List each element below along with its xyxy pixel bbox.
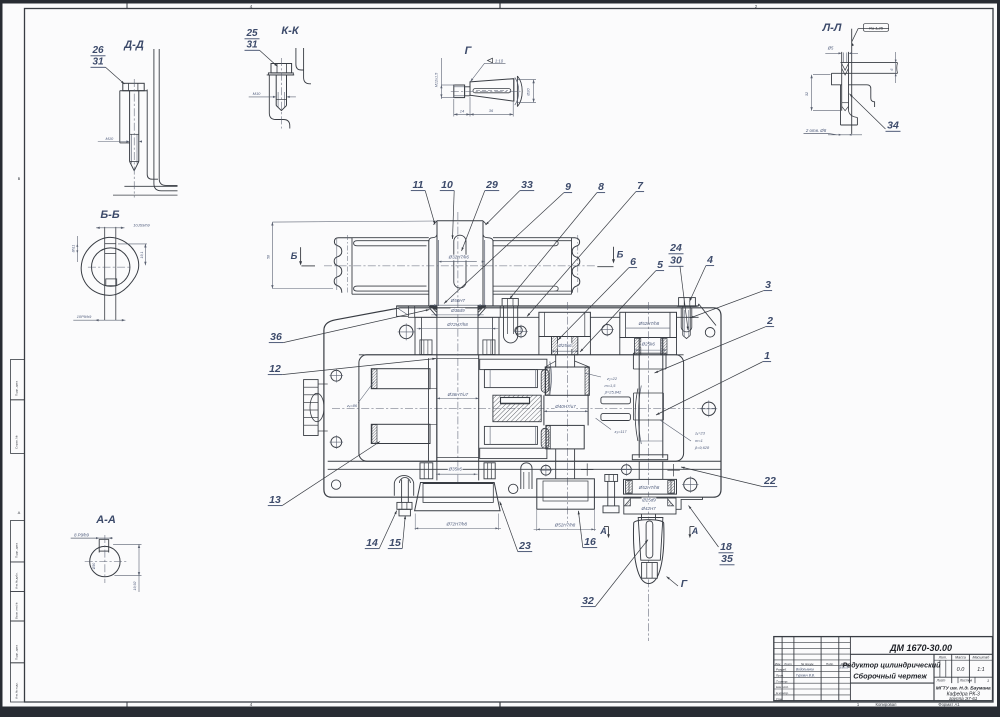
svg-text:А-А: А-А: [95, 514, 116, 526]
output shaft cross lines: [634, 392, 664, 394]
M10 thread dimension D-D: [98, 141, 127, 143]
big wheel z86 bottom arm: [371, 424, 430, 443]
svg-text:Ø36Н7/u7: Ø36Н7/u7: [447, 392, 469, 397]
seal wedges output bottom: [625, 499, 631, 506]
left margin graph box - podp i data lower: [11, 621, 25, 663]
deck top plate line: [397, 305, 438, 307]
output shaft column: [638, 338, 640, 458]
oil level indicator boss: [304, 380, 319, 436]
dim O32H7/k6 in hub: [448, 255, 470, 261]
svg-text:Листов: Листов: [959, 679, 973, 683]
big wheel hub lines: [428, 358, 430, 461]
dim O72H7/h8 bottom: [446, 522, 468, 528]
svg-text:Ø20: Ø20: [527, 88, 531, 97]
pin 34 body: [841, 52, 843, 111]
svg-text:34: 34: [887, 120, 899, 132]
shaft neck: [465, 87, 470, 96]
big wheel z86 top arm: [371, 369, 430, 389]
svg-text:Ø52Н7/h8: Ø52Н7/h8: [638, 485, 660, 490]
output shaft bottom flare: [632, 455, 667, 460]
B-B keyway horizontals: [105, 243, 116, 245]
output shaft lower extension: [641, 514, 643, 520]
svg-text:Масштаб: Масштаб: [973, 655, 991, 659]
svg-text:Нач.отд.: Нач.отд.: [776, 685, 789, 689]
bolt 26 shank: [129, 91, 131, 162]
svg-text:Ra 1,25: Ra 1,25: [869, 26, 884, 31]
svg-text:Водопьянов: Водопьянов: [796, 668, 814, 672]
input shaft centerline: [457, 212, 459, 482]
coupling lower chain plate left: [354, 286, 429, 291]
deck bolt hole symbol left: [399, 325, 413, 339]
input bottom bearing cover plate: [415, 483, 501, 511]
upper plate L-L: [841, 62, 898, 64]
bottom deck center marks: [581, 469, 593, 471]
shaft collar: [513, 79, 515, 102]
svg-text:1:10: 1:10: [495, 58, 504, 63]
svg-text:Разраб.: Разраб.: [776, 668, 787, 672]
washer line under bolt 26: [120, 90, 147, 92]
dim 35Ok6 under input shaft: [448, 467, 463, 473]
big wheel z86 bottom tooth hatch: [372, 425, 377, 444]
title block lit-massa-masshtab cells: [934, 659, 993, 661]
bolt 25 shank: [275, 75, 277, 106]
svg-text:35: 35: [721, 553, 733, 565]
A-A right dim 19.92: [113, 543, 141, 545]
svg-text:Изм.: Изм.: [775, 662, 782, 666]
bolt 25 head: [271, 64, 292, 73]
bolt 26 tip: [130, 162, 139, 171]
extension line M12: [440, 58, 442, 99]
svg-text:19,1: 19,1: [140, 252, 144, 259]
input bearing lower bolt left: [420, 340, 432, 355]
B-B cam blob outline: [81, 237, 139, 295]
gear z117 upper arm: [484, 370, 537, 388]
svg-text:31: 31: [246, 40, 258, 51]
M12 dim arrows: [441, 84, 455, 86]
flange corner hole top right: [705, 328, 715, 338]
bottom right bearing boss step: [676, 498, 703, 510]
dim O40H7 output bottom: [641, 506, 656, 512]
svg-text:Дата: Дата: [840, 662, 849, 666]
plate line K-K: [267, 74, 295, 76]
svg-text:Ø5: Ø5: [827, 46, 834, 51]
output bearing below cap: [619, 338, 621, 355]
main horizontal centerline of gear train: [332, 407, 716, 409]
hanging bolt boss 14-15: [394, 476, 413, 496]
svg-text:06.03.09: 06.03.09: [839, 667, 849, 670]
output shaft end envelope: [633, 520, 663, 584]
B-B left dim 8h11: [76, 236, 78, 262]
B-B horizontal centerline: [88, 266, 132, 268]
dim O35d9: [451, 308, 466, 314]
B-B keyway slot verticals: [104, 227, 106, 320]
intermediate shaft upper journal: [555, 355, 557, 367]
svg-text:№ докум.: № докум.: [801, 662, 814, 666]
svg-text:14: 14: [366, 537, 378, 549]
svg-text:Взам. инв.№: Взам. инв.№: [15, 602, 19, 619]
flange second bottom line: [328, 468, 721, 470]
svg-text:8h11: 8h11: [72, 245, 76, 253]
title block left columns: [781, 637, 783, 701]
B-B bottom key rect: [106, 279, 117, 286]
svg-text:4: 4: [706, 254, 713, 266]
svg-text:6: 6: [630, 256, 636, 268]
svg-text:ДМ 1670-30.00: ДМ 1670-30.00: [889, 643, 952, 653]
input shaft seal cover right: [478, 306, 500, 317]
output bearing cap: [620, 312, 677, 337]
A-A keyway: [98, 539, 100, 552]
svg-text:Б: Б: [617, 250, 624, 261]
svg-text:18: 18: [720, 541, 732, 553]
svg-text:29: 29: [485, 179, 498, 191]
left cover tab: [397, 306, 409, 316]
svg-text:Лист: Лист: [936, 679, 946, 683]
housing edge lines right of bolt 25: [296, 48, 304, 70]
coupling left sprocket teeth: [334, 238, 352, 293]
output shaft journal through flange: [638, 461, 640, 479]
deck bolt hole symbol right: [602, 324, 613, 335]
title block designation cell line: [850, 653, 992, 655]
svg-text:М10: М10: [106, 136, 115, 141]
svg-text:10Р9/h9: 10Р9/h9: [77, 314, 92, 319]
flange bolt hole symbol right mid: [702, 402, 715, 415]
output shaft nut: [642, 563, 658, 579]
svg-text:Подп. дата: Подп. дата: [15, 381, 19, 396]
input shaft journal through flange: [436, 461, 438, 480]
left wall corner hole bottom: [331, 480, 340, 489]
coupling upper chain plate left: [354, 241, 429, 246]
bolt 25 washer: [268, 73, 293, 75]
left margin graph box - vzam inv no: [11, 591, 25, 621]
hub keyway white strip: [501, 398, 530, 404]
svg-text:Ø40Н7/u7: Ø40Н7/u7: [554, 404, 576, 409]
svg-text:36: 36: [489, 108, 494, 113]
coupling horizontal centerline: [324, 265, 596, 267]
svg-text:32: 32: [582, 595, 594, 607]
svg-text:30: 30: [670, 255, 682, 267]
svg-text:z₁=23: z₁=23: [694, 431, 706, 436]
svg-text:Б-Б: Б-Б: [100, 209, 119, 221]
gear z117 top flange bar: [480, 359, 547, 369]
svg-text:Масса: Масса: [955, 655, 966, 659]
svg-text:z₃=117: z₃=117: [614, 429, 628, 434]
bottom margin zone tick 2: [499, 702, 501, 707]
B-B top dimension 10JS9/h9: [96, 227, 124, 229]
dim 32 left: [813, 74, 831, 76]
svg-text:А: А: [599, 526, 607, 536]
input bearing lower bolt right: [483, 340, 495, 355]
intermediate shaft wide O40 section: [543, 395, 545, 425]
left margin graph box - podp i data: [11, 521, 25, 562]
svg-text:2: 2: [766, 315, 773, 327]
svg-text:1: 1: [987, 679, 989, 683]
B-B shaft bore circle: [92, 248, 130, 286]
middle bracket L-L: [832, 73, 842, 85]
svg-text:Т.контр.: Т.контр.: [776, 679, 788, 683]
svg-text:Подп.: Подп.: [826, 662, 834, 666]
coupling hub keyway slot: [454, 235, 466, 288]
output shaft keyway slot: [646, 521, 653, 558]
dim O72H7/h8 top: [447, 322, 469, 328]
svg-text:14: 14: [460, 109, 465, 114]
taper symbol 1:10: [488, 58, 493, 63]
svg-text:58: 58: [266, 255, 270, 259]
mid lower bearing right bolt: [605, 475, 618, 482]
mid bearing cap: [539, 312, 591, 336]
svg-text:Копировал: Копировал: [876, 702, 898, 707]
left part edge K-K: [268, 75, 270, 113]
gear z117 bottom flange bar: [480, 448, 547, 458]
coupling right chain plate lower: [493, 290, 572, 292]
bolt 25 tip: [276, 106, 286, 111]
input shaft seal cover left: [415, 306, 437, 317]
wheel web lines: [429, 388, 437, 390]
coupling hub outline: [437, 220, 483, 222]
svg-text:Пров.: Пров.: [776, 673, 784, 677]
deck bolt hole symbol mid: [516, 326, 527, 337]
bottom margin zone tick 1: [126, 702, 128, 707]
svg-text:А: А: [691, 526, 699, 536]
svg-text:Ø25k6: Ø25k6: [557, 343, 572, 348]
svg-text:23: 23: [518, 540, 531, 552]
A-A shaft circle: [90, 546, 120, 576]
svg-text:Ø72Н7/h8: Ø72Н7/h8: [446, 522, 468, 527]
leader to bolt 26: [106, 67, 125, 84]
svg-text:Инв.№ подл.: Инв.№ подл.: [15, 682, 19, 699]
small circle right of stud: [515, 327, 523, 335]
svg-text:Гуревич В.В.: Гуревич В.В.: [796, 673, 815, 677]
svg-text:Редуктор цилиндрический: Редуктор цилиндрический: [842, 661, 941, 670]
retaining ring brace: [550, 362, 552, 394]
input lower bearing bolts: [420, 463, 433, 479]
L-L long vertical edge: [851, 29, 853, 134]
svg-text:8: 8: [598, 181, 604, 193]
tapered shaft body 1:10: [470, 79, 514, 102]
dim O50H7: [451, 298, 466, 304]
output shaft tapered plug: [638, 518, 663, 561]
dim O52H7/h8 mid bottom: [554, 523, 576, 529]
svg-text:2 отв. Ø8: 2 отв. Ø8: [805, 128, 827, 133]
bolt 26 centerline: [133, 79, 135, 198]
svg-text:Ø72Н7/h8: Ø72Н7/h8: [446, 322, 468, 327]
housing edge lines right of bolt 26: [147, 90, 158, 180]
svg-text:β=25,842: β=25,842: [604, 390, 622, 395]
svg-text:10: 10: [441, 179, 453, 191]
dim O36H7/u7: [447, 392, 469, 398]
B-B right dim 19.1: [118, 243, 147, 245]
svg-text:12: 12: [269, 363, 281, 375]
svg-text:11: 11: [413, 179, 424, 191]
bottom deck bolt hole symbols: [541, 465, 551, 475]
G bottom dimensions 14 and 36: [453, 99, 455, 117]
svg-text:19,92: 19,92: [133, 582, 137, 591]
flange corner bolt hole bottom right: [684, 478, 697, 491]
housing flange outer outline: [324, 308, 721, 497]
coupling left arm outer edges: [352, 237, 429, 239]
svg-text:8 P9/h9: 8 P9/h9: [74, 532, 89, 537]
svg-text:z₂=22: z₂=22: [606, 376, 618, 381]
clamped plate left edge D-D: [119, 91, 121, 143]
mid bearing hatched races: [552, 337, 558, 355]
gear z117 lower arm: [484, 426, 537, 444]
svg-text:Ø52Н7/h8: Ø52Н7/h8: [554, 523, 576, 528]
pin 34 top slot vees: [842, 64, 849, 71]
svg-text:24: 24: [669, 242, 682, 254]
coupling right chain plate upper: [493, 240, 572, 242]
intermediate lower gear block: [546, 425, 584, 449]
output bottom bearing block: [624, 479, 677, 494]
input shaft column: [436, 355, 438, 461]
svg-text:Б: Б: [291, 251, 298, 262]
deck lower line segments: [408, 316, 415, 318]
svg-text:Ø25k6: Ø25k6: [641, 342, 656, 347]
svg-text:0.0: 0.0: [957, 667, 966, 673]
svg-text:26: 26: [91, 45, 104, 56]
top margin zone tick 1: [126, 4, 128, 9]
svg-text:Подп. дата: Подп. дата: [15, 543, 19, 558]
svg-text:А: А: [18, 510, 21, 515]
svg-text:Формат А1: Формат А1: [938, 702, 960, 707]
title block left rows: [774, 641, 851, 643]
output bottom seal flange: [624, 498, 676, 514]
output shaft hub flange top: [632, 353, 634, 369]
svg-text:13: 13: [269, 494, 281, 506]
roughness mark Ra 1.25: [852, 29, 858, 42]
left wall bolt hole symbol lower: [331, 437, 342, 448]
stud 4 top right: [679, 298, 696, 307]
svg-text:1:1: 1:1: [977, 667, 985, 673]
svg-text:z₄=86: z₄=86: [346, 403, 358, 408]
pinion z22 gear block: [545, 367, 589, 395]
bottom flange split line: [328, 460, 721, 462]
svg-text:Ø25d9: Ø25d9: [641, 497, 656, 502]
G view centerline: [451, 90, 521, 92]
coupling right sprocket teeth: [572, 238, 580, 293]
A-A centerlines: [104, 535, 106, 583]
M10 dimension K-K: [249, 96, 274, 98]
svg-text:Справ. №: Справ. №: [15, 435, 19, 449]
shaft end bulge: [517, 76, 522, 107]
mid bottom bearing cover: [537, 479, 595, 509]
svg-text:Д-Д: Д-Д: [123, 39, 144, 51]
svg-text:М10: М10: [253, 91, 262, 96]
left margin graph box - podp i data (upper): [11, 360, 25, 400]
svg-text:1: 1: [764, 350, 770, 362]
svg-text:15: 15: [389, 537, 401, 549]
stud ball head circle: [509, 484, 518, 493]
svg-text:Н.контр.: Н.контр.: [776, 691, 789, 695]
dim O52H7/h8 output bottom: [638, 485, 660, 491]
input bearing housing upper: [414, 317, 416, 355]
stud 8 with nut on deck: [502, 299, 518, 307]
left wall bolt hole symbol upper: [331, 370, 342, 381]
svg-text:группа Э7-61: группа Э7-61: [949, 696, 978, 701]
svg-text:22: 22: [763, 475, 776, 487]
gear z117 hub hatched section: [493, 395, 541, 422]
mid lower bearing left stud: [521, 463, 532, 489]
left margin graph box - inv no dubl: [11, 562, 25, 592]
svg-text:m=1: m=1: [695, 438, 703, 443]
left margin graph box - sprav no: [11, 400, 25, 454]
big wheel z86 top tooth hatch: [372, 369, 377, 388]
output shaft centerline: [648, 302, 650, 641]
bottom lines D-D: [124, 185, 177, 187]
bearing roller capsules right of gear: [541, 370, 549, 393]
svg-text:9: 9: [565, 181, 571, 193]
svg-text:10JS9/h9: 10JS9/h9: [133, 222, 150, 227]
dim O25d9 output bottom: [642, 498, 657, 504]
svg-text:5: 5: [657, 259, 663, 271]
bearing corner marks output bottom: [626, 481, 633, 494]
svg-text:33: 33: [521, 179, 533, 191]
svg-text:Утв.: Утв.: [776, 697, 783, 701]
title block name/lit divider: [933, 654, 935, 700]
deck corner slant right: [699, 304, 716, 326]
svg-text:Лист: Лист: [783, 662, 792, 666]
gear chamber inner wall: [359, 355, 684, 461]
pin 34 bottom detail: [842, 102, 849, 104]
intermediate shaft lower journal: [555, 449, 557, 461]
left margin graph box - inv no podl: [11, 663, 25, 702]
bolt 25 centerline: [280, 58, 282, 129]
svg-text:Ø30: Ø30: [92, 563, 96, 571]
svg-text:Сборочный чертеж: Сборочный чертеж: [853, 672, 927, 681]
thickness dim 6: [853, 56, 900, 58]
title block outer frame: [774, 637, 993, 701]
svg-text:β=9,628: β=9,628: [694, 445, 710, 450]
taper keyway slot capsule: [473, 89, 511, 93]
top margin zone tick 2: [499, 4, 501, 9]
svg-text:М12х1,5: М12х1,5: [435, 72, 439, 87]
deck underside line: [359, 354, 684, 356]
svg-text:36: 36: [270, 331, 282, 343]
bolt 26 thread lines: [130, 134, 132, 163]
svg-text:Лит.: Лит.: [938, 655, 947, 659]
svg-text:К-К: К-К: [281, 25, 299, 37]
svg-text:Ø42Н7: Ø42Н7: [640, 506, 656, 511]
dim O25k6 mid: [558, 343, 573, 349]
svg-text:m=1,5: m=1,5: [605, 383, 617, 388]
dim O40H7/u7: [555, 404, 577, 410]
leader to bolt 25: [260, 50, 278, 66]
svg-text:3: 3: [765, 279, 771, 291]
svg-text:Г: Г: [681, 578, 688, 590]
shaft end threaded stub: [454, 85, 465, 98]
svg-text:31: 31: [92, 57, 104, 68]
output bearing hatched races: [635, 339, 641, 355]
housing lower S-curve K-K: [269, 113, 290, 129]
mid shaft flare to gear: [545, 361, 556, 367]
lower boss around pin: [840, 85, 842, 125]
intermediate shaft centerline: [566, 302, 568, 530]
svg-text:Ø35k6: Ø35k6: [448, 467, 463, 472]
svg-text:25: 25: [245, 28, 258, 39]
keyway slots with keys right of intermediate shaft: [601, 397, 631, 404]
mid bearing below cap: [538, 337, 540, 355]
coupling right arm outer edges: [493, 237, 572, 239]
svg-text:Ø32Н7/k6: Ø32Н7/k6: [448, 255, 470, 260]
bolt 26 head: [123, 83, 144, 90]
svg-text:Инв.№ дубл.: Инв.№ дубл.: [15, 572, 19, 589]
mid shaft journal through flange: [555, 461, 557, 479]
svg-text:Подп. дата: Подп. дата: [15, 645, 19, 660]
dim O52H7/h8 output top: [638, 321, 660, 327]
coupling height dim 58: [271, 222, 273, 288]
dim O25k6 output: [641, 342, 656, 348]
svg-text:Л-Л: Л-Л: [822, 22, 842, 34]
output gear silhouette arcs: [635, 389, 638, 442]
svg-text:16: 16: [584, 536, 596, 548]
